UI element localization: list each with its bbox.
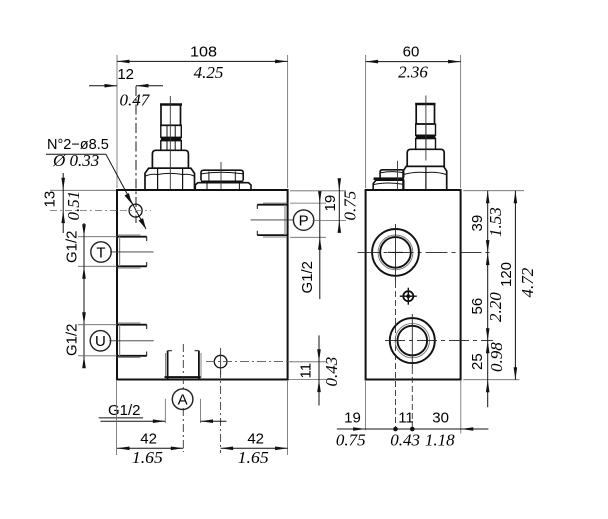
svg-text:U: U [95, 333, 106, 350]
svg-text:A: A [178, 392, 188, 409]
valve centerline (left view) [169, 96, 171, 190]
dimension G1/2 for port T [78, 223, 117, 368]
valve centerline (right view) [425, 96, 427, 161]
port A centerline [182, 344, 184, 391]
svg-text:39: 39 [469, 215, 486, 232]
left view valve body outline [117, 190, 288, 380]
dimension chain 39/56/25 (right side, inner) [463, 191, 524, 408]
dimension 120 / 4.72 (right side, outer) [514, 191, 518, 380]
svg-text:1.18: 1.18 [425, 431, 455, 450]
port P thread lines (right edge) [251, 203, 294, 237]
locknut lower [161, 141, 182, 151]
svg-text:108: 108 [190, 44, 217, 61]
port U thread lines [109, 323, 153, 358]
port A thread lines (bottom) [165, 351, 202, 379]
plug upper nut [380, 170, 404, 178]
small hole lower right of left view [214, 355, 227, 368]
valve flange [152, 150, 188, 168]
svg-text:1.65: 1.65 [238, 448, 269, 467]
bottom port hole (right view) [390, 318, 435, 363]
svg-text:19: 19 [322, 195, 339, 212]
svg-text:G1/2: G1/2 [108, 402, 141, 419]
svg-text:0.47: 0.47 [120, 91, 151, 110]
svg-text:0.75: 0.75 [341, 191, 360, 221]
relief valve cartridge on top (left view) [145, 105, 195, 190]
flange [407, 149, 444, 166]
dimension 42 / 1.65 (right, hole to edge) [221, 381, 288, 455]
plug lower hex [373, 180, 404, 190]
dark band between nuts [161, 137, 182, 140]
top port hole (right view) [372, 229, 419, 276]
stem [416, 104, 434, 124]
svg-text:0.43: 0.43 [390, 431, 420, 450]
plug on top right (left view) [195, 170, 251, 190]
svg-text:4.25: 4.25 [194, 63, 224, 82]
dimension G1/2 for port U [78, 312, 117, 368]
plug upper nut [201, 170, 243, 180]
dimension 19 / 0.75 (port P from top) [290, 178, 346, 233]
dark band [201, 181, 243, 183]
bottom dimensions 19 / 11 / 30 (right view) [337, 381, 489, 434]
locknut upper [416, 124, 436, 135]
dimension 11 / 0.43 (small hole from bottom) [289, 335, 327, 405]
adjust screw stem [161, 105, 181, 126]
svg-text:0.75: 0.75 [336, 431, 366, 450]
svg-text:P: P [299, 212, 309, 229]
svg-text:4.72: 4.72 [518, 267, 537, 297]
plug centerline (left view) [220, 162, 222, 190]
dark band [374, 177, 404, 180]
port T thread lines [110, 235, 154, 268]
port label P [293, 210, 313, 230]
plug lower hex [195, 183, 251, 190]
centerline of Ø8.5 hole (vertical dash-dot) [135, 86, 137, 223]
bottom hole centerlines [385, 340, 493, 342]
dimension 12 / 0.47 (hole offset) [89, 84, 163, 88]
svg-text:13: 13 [42, 191, 59, 208]
svg-text:0.51: 0.51 [64, 191, 83, 221]
small center hole with crosshair (right view) [403, 291, 413, 301]
svg-text:T: T [96, 244, 105, 261]
dimension G1/2 for port P [290, 191, 326, 300]
svg-text:19: 19 [344, 410, 361, 427]
svg-text:11: 11 [398, 410, 414, 427]
dimension 42 / 1.65 (left, edge to port A) [117, 381, 184, 455]
svg-text:12: 12 [117, 66, 134, 83]
port label A [172, 389, 193, 410]
svg-text:1.53: 1.53 [486, 207, 505, 237]
svg-text:30: 30 [432, 410, 449, 427]
svg-text:2.36: 2.36 [398, 63, 428, 82]
plug centerline (right view) [397, 161, 399, 190]
hex body [403, 166, 447, 189]
top hole centerlines [358, 251, 494, 253]
svg-text:42: 42 [247, 431, 264, 448]
svg-text:2.20: 2.20 [486, 292, 505, 322]
svg-text:G1/2: G1/2 [64, 323, 81, 356]
dimension 13 / 0.51 (hole from top) [50, 173, 120, 233]
Ø8.5 mounting hole [129, 204, 142, 217]
svg-text:42: 42 [140, 431, 157, 448]
port label T [91, 242, 111, 262]
svg-text:11: 11 [298, 363, 315, 379]
right view valve body outline [366, 190, 461, 380]
svg-text:0.43: 0.43 [322, 357, 341, 387]
svg-text:1.65: 1.65 [132, 448, 163, 467]
port label U [90, 331, 110, 351]
svg-text:0.98: 0.98 [487, 342, 506, 372]
dark band [416, 135, 436, 138]
svg-text:25: 25 [469, 353, 486, 370]
dimension 60 / 2.36 (top width of right view) [366, 55, 461, 188]
side plug (right view, left of valve) [373, 170, 404, 190]
valve hex body [145, 168, 195, 190]
locknut upper [161, 125, 182, 137]
dimension 108 / 4.25 (top width of left view) [117, 55, 288, 188]
svg-text:120: 120 [498, 262, 515, 287]
svg-text:56: 56 [469, 298, 486, 315]
svg-text:G1/2: G1/2 [299, 261, 316, 294]
relief valve cartridge on top (right view) [403, 104, 447, 190]
locknut lower [416, 139, 436, 150]
svg-text:G1/2: G1/2 [64, 230, 81, 263]
svg-text:60: 60 [403, 44, 420, 61]
